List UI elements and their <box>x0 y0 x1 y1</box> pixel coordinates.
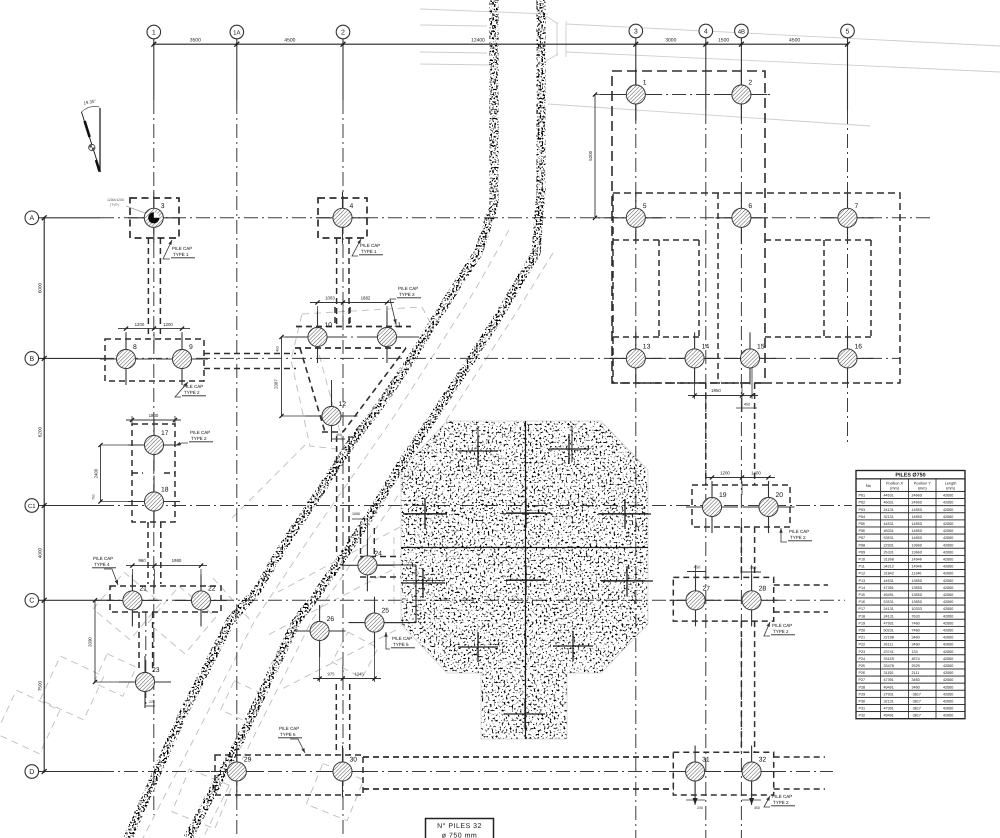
svg-text:42000: 42000 <box>943 614 953 618</box>
svg-text:450: 450 <box>694 565 701 570</box>
svg-text:42000: 42000 <box>943 529 953 533</box>
stippled band left <box>128 0 494 838</box>
note box N PILES 32 <box>426 819 494 838</box>
svg-text:P29: P29 <box>859 692 866 696</box>
svg-text:34212: 34212 <box>884 565 894 569</box>
svg-text:PILE CAP: PILE CAP <box>360 243 380 248</box>
svg-text:42000: 42000 <box>943 515 953 519</box>
svg-text:P09: P09 <box>859 550 866 554</box>
beam right of cap 8/9 <box>204 354 296 369</box>
svg-text:6200: 6200 <box>38 426 43 437</box>
svg-text:450: 450 <box>754 806 760 810</box>
svg-text:42000: 42000 <box>943 657 953 661</box>
svg-text:3460: 3460 <box>912 636 920 640</box>
svg-text:P16: P16 <box>859 600 866 604</box>
pile 19 <box>686 481 738 533</box>
svg-text:42000: 42000 <box>943 501 953 505</box>
grid bubble 1A <box>230 25 244 39</box>
pile 16 <box>822 332 874 384</box>
svg-text:3500: 3500 <box>190 37 201 43</box>
svg-text:33478: 33478 <box>884 664 894 668</box>
dim 1090 above pile 24 <box>352 512 367 556</box>
svg-text:14660: 14660 <box>912 536 922 540</box>
grid line C1 horizontal <box>39 505 852 507</box>
tie beam cap 21/22 down to pile 23 <box>139 612 153 672</box>
svg-text:24660: 24660 <box>912 494 922 498</box>
svg-text:TYPE 2: TYPE 2 <box>790 535 806 540</box>
svg-text:TYPE 2: TYPE 2 <box>184 390 200 395</box>
svg-text:TYPE 1: TYPE 1 <box>361 249 377 254</box>
pile 15 <box>724 332 776 384</box>
grid bubble 1 <box>147 25 161 39</box>
label pile cap type 3 (cap 10/11) <box>390 286 421 324</box>
svg-text:P28: P28 <box>859 685 866 689</box>
svg-text:PILES Ø750: PILES Ø750 <box>895 473 925 479</box>
svg-text:42000: 42000 <box>943 650 953 654</box>
svg-text:C: C <box>29 598 34 605</box>
svg-text:-3817: -3817 <box>912 714 921 718</box>
grid line 2 vertical <box>342 39 344 838</box>
dim 960/1980 above cap 21/22 <box>126 558 207 594</box>
svg-text:42000: 42000 <box>943 508 953 512</box>
svg-text:23741: 23741 <box>884 650 894 654</box>
svg-text:14946: 14946 <box>912 565 922 569</box>
svg-text:47391: 47391 <box>884 707 894 711</box>
grid bubble 4B <box>735 24 749 38</box>
svg-text:PILE CAP: PILE CAP <box>279 726 299 731</box>
svg-text:450: 450 <box>336 433 342 437</box>
svg-text:TYPE 5: TYPE 5 <box>393 642 409 647</box>
svg-text:14660: 14660 <box>912 515 922 519</box>
svg-text:4500: 4500 <box>284 37 295 43</box>
pile 13 <box>610 332 662 384</box>
svg-text:27931: 27931 <box>884 692 894 696</box>
grid line 4 vertical <box>705 38 707 838</box>
svg-text:230: 230 <box>697 806 703 810</box>
svg-text:TYPE 4: TYPE 4 <box>94 562 110 567</box>
svg-text:P22: P22 <box>859 643 866 647</box>
svg-text:P02: P02 <box>859 501 866 505</box>
svg-text:42000: 42000 <box>943 664 953 668</box>
svg-text:(mm): (mm) <box>946 486 956 490</box>
svg-text:10333: 10333 <box>912 607 922 611</box>
svg-text:No: No <box>866 483 872 488</box>
svg-text:Position X: Position X <box>886 481 904 485</box>
svg-text:42000: 42000 <box>943 536 953 540</box>
pile 24 <box>341 539 393 591</box>
svg-text:13660: 13660 <box>912 586 922 590</box>
svg-text:24131: 24131 <box>884 614 894 618</box>
grid bubble B <box>25 352 39 366</box>
strip below big cap to cap 19/20 <box>706 383 755 485</box>
svg-text:16: 16 <box>855 343 863 350</box>
svg-text:42000: 42000 <box>943 685 953 689</box>
svg-text:49491: 49491 <box>884 714 894 718</box>
svg-text:3000: 3000 <box>665 37 676 43</box>
svg-text:7: 7 <box>855 203 859 210</box>
tie beam below pile 12 <box>337 436 349 552</box>
svg-text:TYPE 6: TYPE 6 <box>280 732 296 737</box>
svg-text:24131: 24131 <box>884 508 894 512</box>
label pile cap type 4 (cap 21/22) <box>92 556 118 585</box>
raft internal lines <box>401 421 648 739</box>
existing road lines top right (gray) <box>420 9 1000 126</box>
svg-text:PILE CAP: PILE CAP <box>93 556 113 561</box>
stippled band right <box>188 0 541 838</box>
svg-text:6000: 6000 <box>38 282 43 293</box>
svg-text:P17: P17 <box>859 607 866 611</box>
pile 30 <box>317 746 369 798</box>
svg-text:5200: 5200 <box>588 150 593 160</box>
svg-text:PILE CAP: PILE CAP <box>772 794 792 799</box>
svg-text:3460: 3460 <box>912 678 920 682</box>
svg-text:25: 25 <box>382 608 390 615</box>
svg-text:7460: 7460 <box>912 629 920 633</box>
pile 4 <box>317 192 369 244</box>
svg-text:22198: 22198 <box>884 636 894 640</box>
svg-text:10: 10 <box>325 322 333 329</box>
svg-text:14660: 14660 <box>912 508 922 512</box>
big pile cap top right tall <box>612 71 765 383</box>
svg-text:4674: 4674 <box>912 657 920 661</box>
svg-text:42000: 42000 <box>943 714 953 718</box>
svg-text:32131: 32131 <box>884 700 894 704</box>
dim 2400 left of cap 17/18 <box>92 443 146 504</box>
svg-text:225: 225 <box>149 700 155 704</box>
svg-text:42000: 42000 <box>943 678 953 682</box>
pile cap type 1 at grid 1/A <box>130 198 179 238</box>
svg-text:(TYP): (TYP) <box>110 203 119 207</box>
svg-text:14: 14 <box>702 343 710 350</box>
svg-text:19: 19 <box>719 492 727 499</box>
svg-text:B: B <box>29 356 34 363</box>
svg-text:42000: 42000 <box>943 629 953 633</box>
svg-text:44531: 44531 <box>884 579 894 583</box>
svg-text:TYPE 2: TYPE 2 <box>773 800 789 805</box>
svg-text:22: 22 <box>208 585 216 592</box>
svg-text:53531: 53531 <box>884 536 894 540</box>
svg-text:P27: P27 <box>859 678 866 682</box>
svg-text:P10: P10 <box>859 558 866 562</box>
centerline piles 1/2 <box>600 94 770 96</box>
svg-text:25331: 25331 <box>884 550 894 554</box>
dim 5200 left of big cap <box>588 92 625 219</box>
dashed bits at pile 24 <box>360 557 401 578</box>
svg-text:PILE CAP: PILE CAP <box>392 636 412 641</box>
svg-text:28: 28 <box>759 585 767 592</box>
pile cap 27/28 <box>673 577 773 621</box>
svg-text:P08: P08 <box>859 543 866 547</box>
svg-text:1882: 1882 <box>361 296 371 301</box>
svg-text:42000: 42000 <box>943 543 953 547</box>
grid line 1A vertical <box>236 39 238 838</box>
svg-text:30: 30 <box>350 757 358 764</box>
svg-text:P19: P19 <box>859 621 866 625</box>
label pile cap type 6 (cap 29/30) <box>278 726 305 753</box>
raft foundation stippled octagon <box>401 421 648 739</box>
dim 1200/1400 above cap 19/20 <box>705 471 775 501</box>
pile 29 <box>211 746 263 798</box>
dims 450 above cap 27/28 <box>687 565 761 595</box>
svg-text:P11: P11 <box>859 565 865 569</box>
svg-text:42000: 42000 <box>943 550 953 554</box>
svg-text:42000: 42000 <box>943 700 953 704</box>
grid bubble C1 <box>25 499 39 513</box>
svg-text:P03: P03 <box>859 508 866 512</box>
label pile cap type 2 (cap 19/20) <box>779 528 812 542</box>
piles table <box>856 471 965 719</box>
svg-text:7633: 7633 <box>912 614 920 618</box>
svg-text:Length: Length <box>945 481 957 485</box>
svg-text:42000: 42000 <box>943 572 953 576</box>
pile 6 <box>715 192 767 244</box>
svg-text:PILE CAP: PILE CAP <box>772 623 792 628</box>
svg-text:453: 453 <box>276 346 280 352</box>
pile 32 <box>726 746 778 798</box>
svg-text:32: 32 <box>759 757 767 764</box>
tie beam below cap 1/A <box>148 238 160 339</box>
svg-text:1980: 1980 <box>172 558 182 563</box>
svg-text:2: 2 <box>341 29 345 36</box>
pile 14 <box>669 332 721 384</box>
pile 27 <box>670 574 722 626</box>
svg-text:46031: 46031 <box>884 529 894 533</box>
pile cap 19/20 <box>692 485 790 527</box>
svg-text:P26: P26 <box>859 671 866 675</box>
svg-text:33159: 33159 <box>884 657 894 661</box>
svg-text:PILE CAP: PILE CAP <box>190 430 210 435</box>
svg-text:1A: 1A <box>233 29 240 36</box>
svg-text:44531: 44531 <box>884 522 894 526</box>
dim 3390 left of piles 21/23 <box>88 598 136 684</box>
svg-text:47931: 47931 <box>884 621 894 625</box>
svg-text:26: 26 <box>327 616 335 623</box>
pile cap type 3 (piles 10,11,12) <box>295 307 411 432</box>
svg-text:PILE CAP: PILE CAP <box>172 246 192 251</box>
grid bubble A <box>25 211 39 225</box>
svg-text:13660: 13660 <box>912 543 922 547</box>
grid line A horizontal <box>39 217 930 219</box>
svg-text:P07: P07 <box>859 536 866 540</box>
raft pile crosses <box>401 434 653 729</box>
svg-text:TYPE 2: TYPE 2 <box>191 436 207 441</box>
existing footings gray rotated squares <box>0 572 378 829</box>
svg-text:N° PILES 32: N° PILES 32 <box>437 823 482 830</box>
big pile cap top right wide <box>613 193 900 383</box>
svg-text:8: 8 <box>133 344 137 351</box>
svg-text:4B: 4B <box>738 28 745 35</box>
svg-text:42000: 42000 <box>943 593 953 597</box>
svg-text:42000: 42000 <box>943 586 953 590</box>
svg-text:42000: 42000 <box>943 607 953 611</box>
svg-text:31: 31 <box>702 757 710 764</box>
svg-text:Position Y: Position Y <box>914 481 931 485</box>
north arrow <box>82 98 101 172</box>
label pile cap type 1 (cap 4) <box>352 239 383 256</box>
svg-text:42000: 42000 <box>943 565 953 569</box>
top dimension line <box>151 37 850 46</box>
dashed stubs above pile 24 <box>361 528 375 556</box>
svg-text:31192: 31192 <box>884 671 894 675</box>
pile 25 <box>349 597 401 649</box>
grid bubble 2 <box>336 25 350 39</box>
svg-text:PILE CAP: PILE CAP <box>789 529 809 534</box>
strip cap 19/20 down to cap 27/28 <box>741 527 754 577</box>
svg-text:1345: 1345 <box>354 672 364 677</box>
svg-text:12400: 12400 <box>471 37 485 43</box>
svg-text:4: 4 <box>350 203 354 210</box>
svg-text:47391: 47391 <box>884 678 894 682</box>
dim 1800 above cap 17 <box>126 413 181 424</box>
svg-text:21: 21 <box>139 585 147 592</box>
pile 20 <box>743 481 795 533</box>
tie beam below cap 2/A <box>337 238 349 326</box>
grid line D horizontal <box>39 771 833 773</box>
left dimension line <box>38 215 47 774</box>
svg-text:18: 18 <box>161 487 169 494</box>
svg-text:1200: 1200 <box>163 322 173 327</box>
dim 1950/450 below piles 14/15 <box>688 366 758 412</box>
grid bubble C <box>25 594 39 608</box>
svg-text:P14: P14 <box>859 586 866 590</box>
pile 28 <box>726 574 778 626</box>
svg-text:20: 20 <box>776 492 784 499</box>
grid line 4B vertical <box>740 38 742 838</box>
beam right of cap 31/32 <box>774 757 825 789</box>
pile cap 8/9 <box>105 339 204 381</box>
svg-text:TYPE 2: TYPE 2 <box>773 629 789 634</box>
beam cap 29/30 to cap 31/32 <box>363 757 674 789</box>
grid line 1 vertical <box>153 39 155 815</box>
svg-text:P21: P21 <box>859 636 866 640</box>
svg-text:6: 6 <box>748 203 752 210</box>
svg-text:2: 2 <box>748 80 752 87</box>
tie beam piles 25/26 down to cap 29/30 <box>336 684 349 755</box>
pile 22 <box>175 574 227 626</box>
pile cap 17/18 <box>132 424 175 522</box>
pile 5 <box>610 192 662 244</box>
svg-text:P25: P25 <box>859 664 866 668</box>
svg-text:ø 750 mm: ø 750 mm <box>442 833 478 838</box>
svg-text:1200x1200: 1200x1200 <box>107 198 124 202</box>
svg-text:2111: 2111 <box>912 671 920 675</box>
strip cap 27/28 down to cap 31/32 <box>741 621 754 752</box>
svg-text:P12: P12 <box>859 572 866 576</box>
svg-text:D: D <box>29 769 34 776</box>
label pile cap type 1 (cap 3) <box>163 240 195 259</box>
svg-text:1090: 1090 <box>352 512 360 516</box>
svg-text:11: 11 <box>394 322 401 329</box>
dim 450 below pile 12 <box>332 416 346 439</box>
svg-text:15: 15 <box>757 343 765 350</box>
svg-text:23: 23 <box>152 667 160 674</box>
svg-text:5: 5 <box>846 28 850 35</box>
svg-text:27: 27 <box>703 585 711 592</box>
svg-text:960: 960 <box>138 558 146 563</box>
svg-text:P15: P15 <box>859 593 866 597</box>
svg-text:13: 13 <box>643 343 651 350</box>
tiny label 1200x1200 TYP near pile 3 <box>107 198 149 215</box>
svg-text:450: 450 <box>744 403 750 407</box>
svg-text:53531: 53531 <box>884 600 894 604</box>
svg-text:42000: 42000 <box>943 600 953 604</box>
centerline pile 12 <box>331 380 333 442</box>
svg-text:11346: 11346 <box>912 572 922 576</box>
svg-text:3390: 3390 <box>88 637 93 647</box>
svg-text:49491: 49491 <box>884 685 894 689</box>
svg-text:13660: 13660 <box>912 550 922 554</box>
label pile cap type 5 (piles 24-26) <box>384 632 415 649</box>
svg-text:42000: 42000 <box>943 558 953 562</box>
svg-text:22931: 22931 <box>884 543 894 547</box>
label pile cap type 2 (cap 8/9) <box>175 382 206 397</box>
pile cap type 1 at grid 2/A <box>318 198 367 238</box>
grid line 3 vertical <box>635 38 637 838</box>
svg-text:42000: 42000 <box>943 636 953 640</box>
pile 31 <box>669 746 721 798</box>
svg-text:31842: 31842 <box>884 572 894 576</box>
svg-text:P20: P20 <box>859 629 866 633</box>
pile 8 <box>100 333 152 385</box>
pile 11 <box>361 311 413 363</box>
svg-text:P05: P05 <box>859 522 866 526</box>
pile 12 <box>306 390 358 442</box>
svg-text:(mm): (mm) <box>890 486 900 490</box>
dim 1063/1882 above cap 10/11 <box>310 296 394 331</box>
svg-text:P06: P06 <box>859 529 866 533</box>
svg-text:46031: 46031 <box>884 501 894 505</box>
svg-text:P24: P24 <box>859 657 866 661</box>
svg-text:P01: P01 <box>859 494 866 498</box>
pile 2 <box>715 69 767 121</box>
svg-text:14660: 14660 <box>912 529 922 533</box>
svg-text:49491: 49491 <box>884 593 894 597</box>
svg-text:4500: 4500 <box>789 37 800 43</box>
grid line 5 vertical <box>847 38 849 445</box>
svg-text:42000: 42000 <box>943 494 953 498</box>
svg-text:-3817: -3817 <box>912 707 921 711</box>
dims below piles 31/32 <box>686 778 761 810</box>
svg-text:7460: 7460 <box>912 621 920 625</box>
svg-text:42000: 42000 <box>943 621 953 625</box>
svg-text:-3817: -3817 <box>912 700 921 704</box>
svg-text:2529: 2529 <box>912 664 920 668</box>
svg-text:14946: 14946 <box>912 558 922 562</box>
svg-text:P31: P31 <box>859 707 866 711</box>
svg-text:4: 4 <box>704 28 708 35</box>
pile cap 29/30 <box>215 755 363 795</box>
svg-text:3460: 3460 <box>912 685 920 689</box>
pile cap 21/22 <box>110 586 221 612</box>
svg-text:42000: 42000 <box>943 643 953 647</box>
svg-text:31268: 31268 <box>884 558 894 562</box>
svg-text:PILE CAP: PILE CAP <box>398 286 418 291</box>
grid bubble 5 <box>841 24 855 38</box>
svg-text:1200: 1200 <box>720 471 730 476</box>
pile 18 <box>128 476 180 528</box>
svg-text:3: 3 <box>161 203 165 210</box>
solid bracket piles 24/25 to raft <box>373 565 416 623</box>
svg-text:P18: P18 <box>859 614 866 618</box>
svg-text:133: 133 <box>912 650 918 654</box>
svg-text:32131: 32131 <box>884 515 894 519</box>
svg-text:42000: 42000 <box>943 692 953 696</box>
svg-text:13660: 13660 <box>912 593 922 597</box>
svg-text:975: 975 <box>328 672 336 677</box>
pile 17 <box>128 419 180 471</box>
pile 7 <box>822 192 874 244</box>
pile 3 <box>128 192 180 244</box>
